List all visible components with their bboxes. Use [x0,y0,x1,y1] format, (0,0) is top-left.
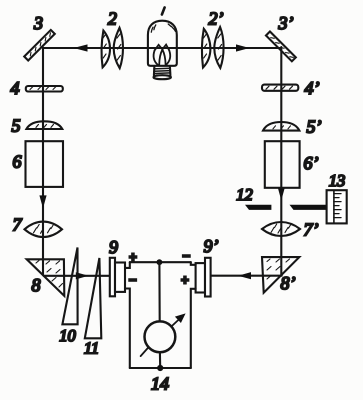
lamp 1 [148,21,177,79]
condenser lens 2' [202,27,224,68]
wire: left vertical beam, mirror 3 down to prism 8 [39,48,46,276]
wire: galvanometer top lead [158,262,160,321]
lens 7 [25,222,63,237]
wire: photocell 9 positive lead [125,262,130,268]
svg-text:+: + [181,273,189,288]
wire: galvanometer bottom lead [159,352,161,368]
svg-text:2: 2 [108,9,117,29]
photocell 9' [196,258,211,297]
wedge 11 [85,258,102,338]
filter 4' [262,85,298,91]
lens 5' [263,122,299,131]
mirror 3 [24,30,55,61]
svg-text:14: 14 [151,373,169,393]
wire: photocell 9 negative lead down [125,289,130,369]
wire: photocell 9' positive lead down [191,289,196,368]
cell 6 [26,141,64,187]
svg-text:9: 9 [109,237,118,257]
svg-text:2’: 2’ [209,9,224,29]
wire: top rail between photocells [130,261,191,263]
wire: top beam, lamp to mirror 3' [148,44,281,51]
node: bottom junction [157,365,163,371]
wire: photocell 9' negative lead [191,262,196,265]
svg-text:6: 6 [13,152,22,172]
svg-text:9’: 9’ [204,236,219,256]
wire: right vertical beam, mirror 3' down to prism 8' [278,47,285,275]
svg-text:7’: 7’ [304,219,319,239]
wire: bottom rail [130,367,191,369]
scale 13 [327,190,347,223]
svg-text:8: 8 [32,275,41,295]
prism 8 [27,259,65,296]
galvanometer 14 [141,313,186,356]
slit 12 right jaw [290,205,327,210]
svg-text:−: − [129,272,137,287]
lens 7' [262,222,300,236]
svg-text:5’: 5’ [307,117,322,137]
svg-text:10: 10 [59,326,76,345]
wire: bottom left beam, prism 8 to photocell 9 [44,272,110,279]
photocell 9 [110,258,125,297]
svg-text:12: 12 [236,185,253,204]
lens 5 [26,121,62,129]
svg-text:5: 5 [12,115,21,135]
mirror 3' [266,31,296,61]
node: top junction [157,259,163,265]
svg-text:11: 11 [84,339,99,358]
slit 12 left jaw [245,205,271,210]
svg-text:7: 7 [13,214,23,234]
condenser lens 2 [102,28,123,68]
cell 6' [265,141,300,188]
svg-text:13: 13 [329,171,346,190]
wire: bottom right beam, prism 8' to photocell 9' [211,272,282,279]
svg-text:6’: 6’ [304,153,319,173]
wedge 10 [62,248,77,325]
svg-text:4’: 4’ [305,78,320,98]
svg-text:3: 3 [33,13,43,33]
svg-text:4: 4 [11,78,20,98]
svg-text:8’: 8’ [281,273,296,293]
label 1 [162,8,165,15]
prism 8' [262,257,299,293]
svg-text:3’: 3’ [278,13,294,33]
wire: top beam, lamp to mirror 3 [43,44,177,51]
filter 4 [26,86,63,92]
